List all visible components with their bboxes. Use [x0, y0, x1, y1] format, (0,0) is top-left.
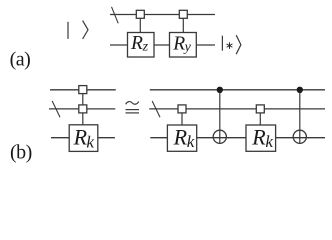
svg-text:(a): (a)	[10, 49, 31, 71]
svg-text:(b): (b)	[10, 142, 32, 164]
svg-text:y: y	[183, 40, 192, 55]
svg-text:R: R	[173, 125, 188, 150]
svg-text:R: R	[251, 125, 266, 150]
svg-text:R: R	[130, 33, 143, 54]
svg-text:R: R	[172, 33, 185, 54]
svg-text:R: R	[73, 124, 88, 149]
svg-text:k: k	[86, 133, 94, 152]
svg-text:z: z	[142, 39, 149, 54]
svg-text:k: k	[187, 132, 195, 151]
svg-text:k: k	[265, 132, 273, 151]
